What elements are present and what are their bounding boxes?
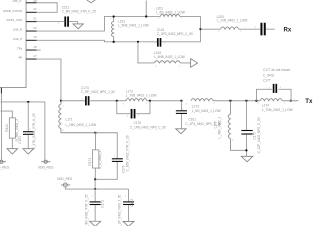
inductor L175 (shunt, vertical): [228, 101, 246, 151]
capacitor C177 (do not mount): [273, 84, 275, 93]
node VDD rail: [94, 188, 96, 190]
node C154 branch: [27, 101, 29, 103]
ground (C171): [90, 221, 101, 226]
inductor L201 (series, top rail): [160, 14, 180, 16]
svg-text:C177: C177: [263, 78, 271, 82]
svg-text:22: 22: [33, 7, 37, 11]
node PA junction: [60, 100, 62, 102]
ground (R141): [7, 149, 18, 154]
pin 19 stub: [26, 39, 37, 41]
svg-text:VDD_REG: VDD_REG: [38, 166, 54, 170]
svg-text:LNA_N: LNA_N: [13, 28, 22, 32]
wire IC bottom pin to VDD_REG flag: [0, 93, 2, 160]
node C176 loop right: [149, 100, 151, 102]
svg-text:R_56K_0402_J: R_56K_0402_J: [15, 119, 19, 141]
node top rail entry: [145, 0, 147, 16]
svg-text:L_3N9_0402_J: L_3N9_0402_J: [217, 116, 221, 138]
capacitor C154 (decoupling): [23, 131, 34, 132]
wire C176 parallel loop: [117, 101, 130, 114]
svg-text:C172: C172: [130, 199, 134, 207]
pin 22 stub: [26, 11, 37, 13]
wire L152 to off-page: [180, 62, 190, 64]
wire Tx rail to C174: [61, 100, 85, 102]
svg-text:L_6N_0402_J_LOW: L_6N_0402_J_LOW: [156, 10, 185, 14]
wire VDD_REG net (left, from edge): [0, 102, 44, 160]
wire R141 feed (from edge): [0, 111, 12, 118]
svg-text:LPF_P: LPF_P: [13, 0, 22, 3]
capacitor C176 (parallel with L172): [131, 109, 133, 119]
svg-text:C_22P_0402_NP0_C_50: C_22P_0402_NP0_C_50: [257, 117, 261, 153]
wire pin 18 no-connect: [37, 49, 41, 51]
wire C211 to ground: [69, 22, 78, 24]
svg-text:23: 23: [33, 0, 37, 3]
capacitor C161 (shunt): [176, 110, 187, 111]
svg-text:18: 18: [33, 45, 37, 49]
svg-text:L_7N5_0402_J_LOW: L_7N5_0402_J_LOW: [126, 93, 157, 97]
svg-text:L_6N8_0402_J_LOW: L_6N8_0402_J_LOW: [154, 55, 185, 59]
wire C174 to node: [90, 100, 126, 102]
wire C177 loop: [256, 89, 272, 100]
wire C161 drop: [180, 101, 182, 111]
capacitor C171 (decoupling): [94, 189, 96, 202]
inductor L152 (series to off-page): [154, 61, 180, 63]
resistor R141: [9, 118, 15, 138]
svg-text:21: 21: [33, 17, 37, 21]
svg-text:L_5N6_0402_J_LOW: L_5N6_0402_J_LOW: [118, 24, 149, 28]
wire pin21 to C211: [37, 21, 64, 23]
pin 17 stub: [26, 58, 37, 60]
svg-text:20: 20: [33, 26, 37, 30]
svg-text:C_3P3_0402_NP0_C_50: C_3P3_0402_NP0_C_50: [157, 32, 193, 36]
svg-text:C_0402: C_0402: [263, 73, 274, 77]
wire C154 drop: [27, 102, 29, 132]
wire PA to Tx rail: [37, 59, 61, 101]
wire C175 drop: [245, 101, 247, 131]
power symbol (cut at top edge): [87, 0, 96, 3]
svg-text:L_7N5_0402_J_LOW: L_7N5_0402_J_LOW: [262, 108, 293, 112]
ground (C154): [23, 149, 34, 154]
wire L201 to junction: [180, 16, 201, 29]
svg-text:C_10N_0402_X7R_K_16: C_10N_0402_X7R_K_16: [125, 135, 129, 171]
node C161 branch: [181, 100, 183, 102]
node balun output: [200, 28, 202, 30]
capacitor C211: [64, 16, 66, 26]
pin 21 stub: [26, 21, 37, 23]
wire to C173: [95, 133, 117, 159]
wire to L152: [138, 42, 154, 63]
pin 24 bottom stub: [0, 88, 2, 94]
svg-text:C_1P8_0402_NP0_C_50: C_1P8_0402_NP0_C_50: [130, 125, 166, 129]
capacitor C175 (shunt): [241, 130, 252, 131]
node C177 loop right: [290, 100, 292, 102]
svg-text:PA: PA: [19, 56, 23, 60]
wire L173 to L174: [213, 100, 260, 102]
wire LNA_P to balun bottom rail: [37, 40, 157, 42]
node R171 top: [95, 132, 97, 134]
resistor R171: [94, 133, 96, 150]
node L152 branch: [137, 41, 139, 43]
svg-text:C_8N_0402_X7R_K_25: C_8N_0402_X7R_K_25: [62, 9, 96, 13]
svg-text:L_10N_0402_J_LOW: L_10N_0402_J_LOW: [217, 19, 248, 23]
node C177 loop left: [256, 100, 258, 102]
capacitor C151 (series, bottom rail): [157, 38, 159, 47]
svg-text:VDD_REG: VDD_REG: [0, 166, 10, 170]
svg-text:19: 19: [33, 35, 37, 39]
capacitor C174 (series, Tx rail): [85, 96, 87, 105]
svg-text:C_47N_0402_X7R_K_25: C_47N_0402_X7R_K_25: [32, 113, 36, 149]
ground (C172): [123, 221, 134, 226]
inductor L151 (shunt, vertical): [111, 16, 113, 41]
node C176 loop left: [116, 100, 118, 102]
svg-text:C171: C171: [100, 200, 104, 208]
wire C173 to bottom node: [95, 162, 117, 179]
capacitor C172 (decoupling): [128, 189, 130, 202]
wire C161 to ground: [180, 114, 182, 129]
node L175 branch: [230, 100, 232, 102]
wire junction to L203: [200, 28, 220, 30]
pin 18 stub: [26, 49, 37, 51]
power flag VDD_REG (left, cut): [0, 161, 6, 163]
svg-text:Rx: Rx: [283, 27, 291, 34]
ground (C175/L175): [241, 156, 253, 162]
wire pin23 to pin22 loop: [37, 3, 58, 13]
svg-text:R141: R141: [5, 124, 9, 132]
node R171 bottom: [94, 178, 96, 180]
ground (C161): [176, 129, 186, 134]
svg-text:C_2P_0402_NP0_J_50: C_2P_0402_NP0_J_50: [117, 194, 121, 226]
wire Rx cap out: [266, 28, 275, 30]
svg-text:L171: L171: [65, 117, 72, 121]
svg-text:TRx: TRx: [17, 47, 23, 51]
wire LNA_N to balun top rail: [37, 16, 161, 31]
node C175 branch: [246, 100, 248, 102]
svg-text:LNA_P: LNA_P: [13, 37, 22, 41]
wire VDD rail: [65, 187, 128, 189]
svg-text:L_18N_0402_J_LOW: L_18N_0402_J_LOW: [65, 123, 96, 127]
svg-text:R_0_0402_J: R_0_0402_J: [98, 151, 102, 169]
ground (C211): [73, 24, 83, 29]
inductor L203 (series, Rx line): [220, 27, 238, 29]
wire C175 to ground node: [245, 135, 247, 157]
svg-text:Tx: Tx: [305, 98, 313, 105]
svg-text:R171: R171: [88, 158, 92, 166]
svg-text:C177 do not mount: C177 do not mount: [263, 68, 290, 72]
pin 20 stub: [26, 30, 37, 32]
wire to VDD rail: [94, 179, 96, 189]
wire C151 to junction: [161, 29, 200, 42]
wire L172 to node: [147, 100, 181, 102]
svg-text:C_RF_0402_NP0_J_50: C_RF_0402_NP0_J_50: [81, 90, 115, 94]
inductor L173 (series, Tx rail): [191, 99, 213, 101]
inductor L172 (series, Tx rail): [126, 99, 147, 101]
inductor L171 (PA bias feed, vertical): [59, 101, 96, 133]
wire L174 to Tx: [282, 100, 298, 102]
svg-text:17: 17: [33, 54, 37, 58]
capacitor C203 (series, Rx output): [260, 23, 262, 36]
svg-text:C_8N_0402_X7R_K_25: C_8N_0402_X7R_K_25: [84, 194, 88, 226]
power flag VDD_REG (right): [41, 161, 50, 163]
inductor L174 (series, Tx rail): [260, 99, 282, 101]
svg-text:AVDD_SYNTH: AVDD_SYNTH: [3, 9, 22, 13]
wire L203 to Rx cap: [239, 28, 260, 30]
capacitor C173 (series, bias): [112, 158, 123, 159]
svg-text:VDD_REG: VDD_REG: [57, 177, 73, 181]
op-amp U1 (RF transceiver IC, partial at left edge): [0, 0, 26, 88]
svg-text:DCPL_VCO: DCPL_VCO: [7, 18, 23, 22]
svg-text:L_6N_0402_J_LOW: L_6N_0402_J_LOW: [192, 109, 221, 113]
pin 23 stub: [26, 2, 37, 4]
off-page connector (antenna port): [191, 59, 198, 68]
